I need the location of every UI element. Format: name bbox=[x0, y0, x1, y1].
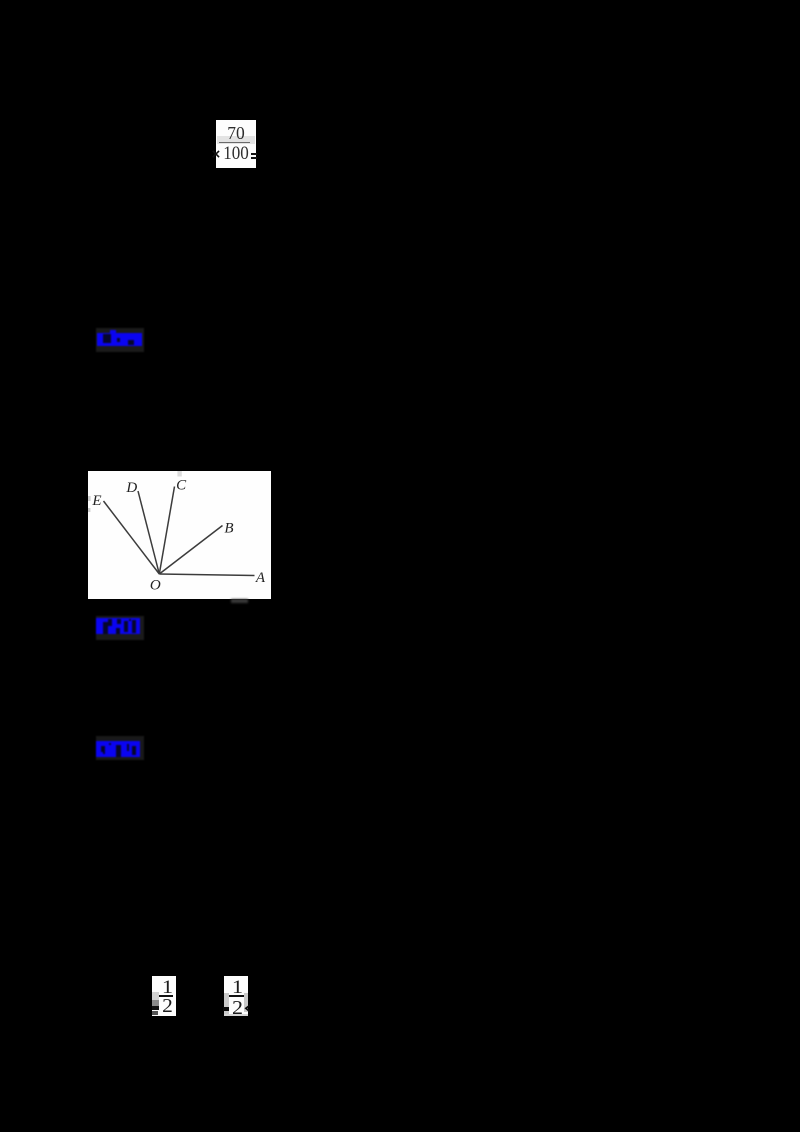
denominator 2 bbox=[158, 996, 176, 1016]
numerator 70 bbox=[216, 125, 256, 143]
ray OA bbox=[159, 574, 254, 576]
svg-text:D: D bbox=[125, 480, 137, 496]
ray OE bbox=[103, 501, 159, 574]
denominator 100 bbox=[218, 146, 255, 163]
fraction bar bbox=[159, 995, 173, 997]
gray ticks left edge bbox=[88, 496, 91, 501]
numerator 1 bbox=[227, 978, 247, 997]
ray OD bbox=[138, 491, 159, 574]
faint artifact smudge below figure bbox=[231, 599, 248, 603]
svg-text:C: C bbox=[176, 477, 187, 493]
fraction image 70/100 (white background) bbox=[216, 120, 256, 168]
multiplication sign left of 70/100 bbox=[212, 149, 226, 163]
equals sign overlapping left edge bbox=[223, 1007, 229, 1009]
highlight band behind fraction bar bbox=[217, 136, 255, 144]
svg-text:E: E bbox=[91, 493, 101, 509]
fraction bar bbox=[229, 995, 244, 997]
ray OB bbox=[159, 525, 222, 574]
fraction bar of 70/100 bbox=[219, 142, 251, 143]
svg-text:B: B bbox=[224, 520, 233, 536]
fraction image 1/2 (first) bbox=[152, 976, 176, 1016]
ray OC bbox=[159, 486, 174, 574]
fraction image 1/2 (second) bbox=[224, 976, 248, 1017]
comma/mark at right edge bbox=[244, 1004, 250, 1014]
blue link blob 1 (Lösning) bbox=[96, 328, 144, 352]
svg-text:O: O bbox=[149, 577, 160, 593]
blue link blob 2 bbox=[96, 616, 144, 641]
gray column blocks (JPEG remnants of equals sign) bbox=[152, 992, 159, 1000]
gray columns bbox=[224, 993, 229, 1016]
figure white background bbox=[88, 471, 271, 599]
svg-text:A: A bbox=[254, 569, 265, 585]
blue link blob 3 bbox=[96, 736, 144, 761]
denominator 2 bbox=[228, 998, 247, 1018]
geometry figure: rays OA OB OC OD OE from vertex O bbox=[88, 471, 271, 599]
gray artifact patch top bbox=[177, 471, 181, 477]
numerator 1 bbox=[157, 978, 177, 997]
equals sign right of 70/100 bbox=[251, 153, 258, 155]
